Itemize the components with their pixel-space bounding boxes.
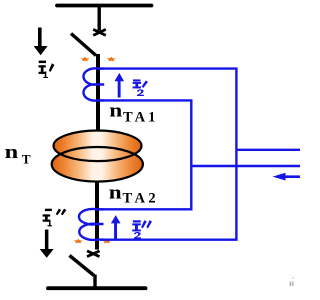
secondary current arrow I'2 (blue, up) (115, 73, 125, 98)
CT secondary outer loop (TA1 top to TA2 bottom) (100, 69, 236, 240)
svg-text:TA2: TA2 (123, 191, 160, 207)
wire: stub from top busbar (97, 6, 100, 31)
busbar bottom (48, 286, 146, 290)
polarity star TA2 left (74, 239, 83, 244)
current arrow I'1 (top left, black, down) (34, 28, 48, 56)
label I''2 (132, 220, 152, 239)
current arrow I''1 (bottom left, black, down) (40, 230, 54, 258)
CT coil TA1 (83, 68, 104, 100)
svg-text:n: n (109, 183, 122, 204)
polarity star TA1 right (107, 57, 116, 62)
wire: main conductor upper section (96, 54, 100, 133)
svg-text:и́: и́ (289, 278, 294, 288)
busbar top (57, 4, 152, 8)
CT secondary inner loop (TA1 bottom to TA2 top) (99, 100, 191, 209)
svg-text:n: n (109, 100, 123, 121)
disconnect blade top QS1 (71, 34, 96, 56)
wire tap from outer loop to relay (236, 149, 300, 151)
CT coil TA2 (79, 209, 104, 240)
label nTA2 (109, 183, 159, 207)
polarity star TA2 right (102, 239, 111, 244)
svg-text:TA1: TA1 (123, 110, 158, 126)
label I''1 (43, 209, 67, 227)
label nT (5, 142, 32, 166)
disconnect blade bottom QS2 (70, 256, 95, 276)
label nTA1 (109, 100, 158, 125)
label I'1 (39, 61, 55, 78)
breaker contact X bottom (87, 251, 100, 257)
wire: stub to bottom busbar (93, 275, 96, 289)
transformer winding ellipses nT (52, 131, 143, 182)
relay current arrow (points left) (273, 173, 301, 181)
svg-text:n: n (5, 142, 19, 163)
label I'2 (133, 79, 148, 96)
svg-text:T: T (22, 152, 31, 166)
polarity star TA1 left (80, 57, 89, 62)
secondary current arrow I''2 (blue, up) (111, 215, 121, 240)
breaker contact X top (93, 29, 106, 35)
wire: main conductor lower section (95, 178, 99, 250)
wire tap from inner loop to relay (191, 165, 300, 167)
